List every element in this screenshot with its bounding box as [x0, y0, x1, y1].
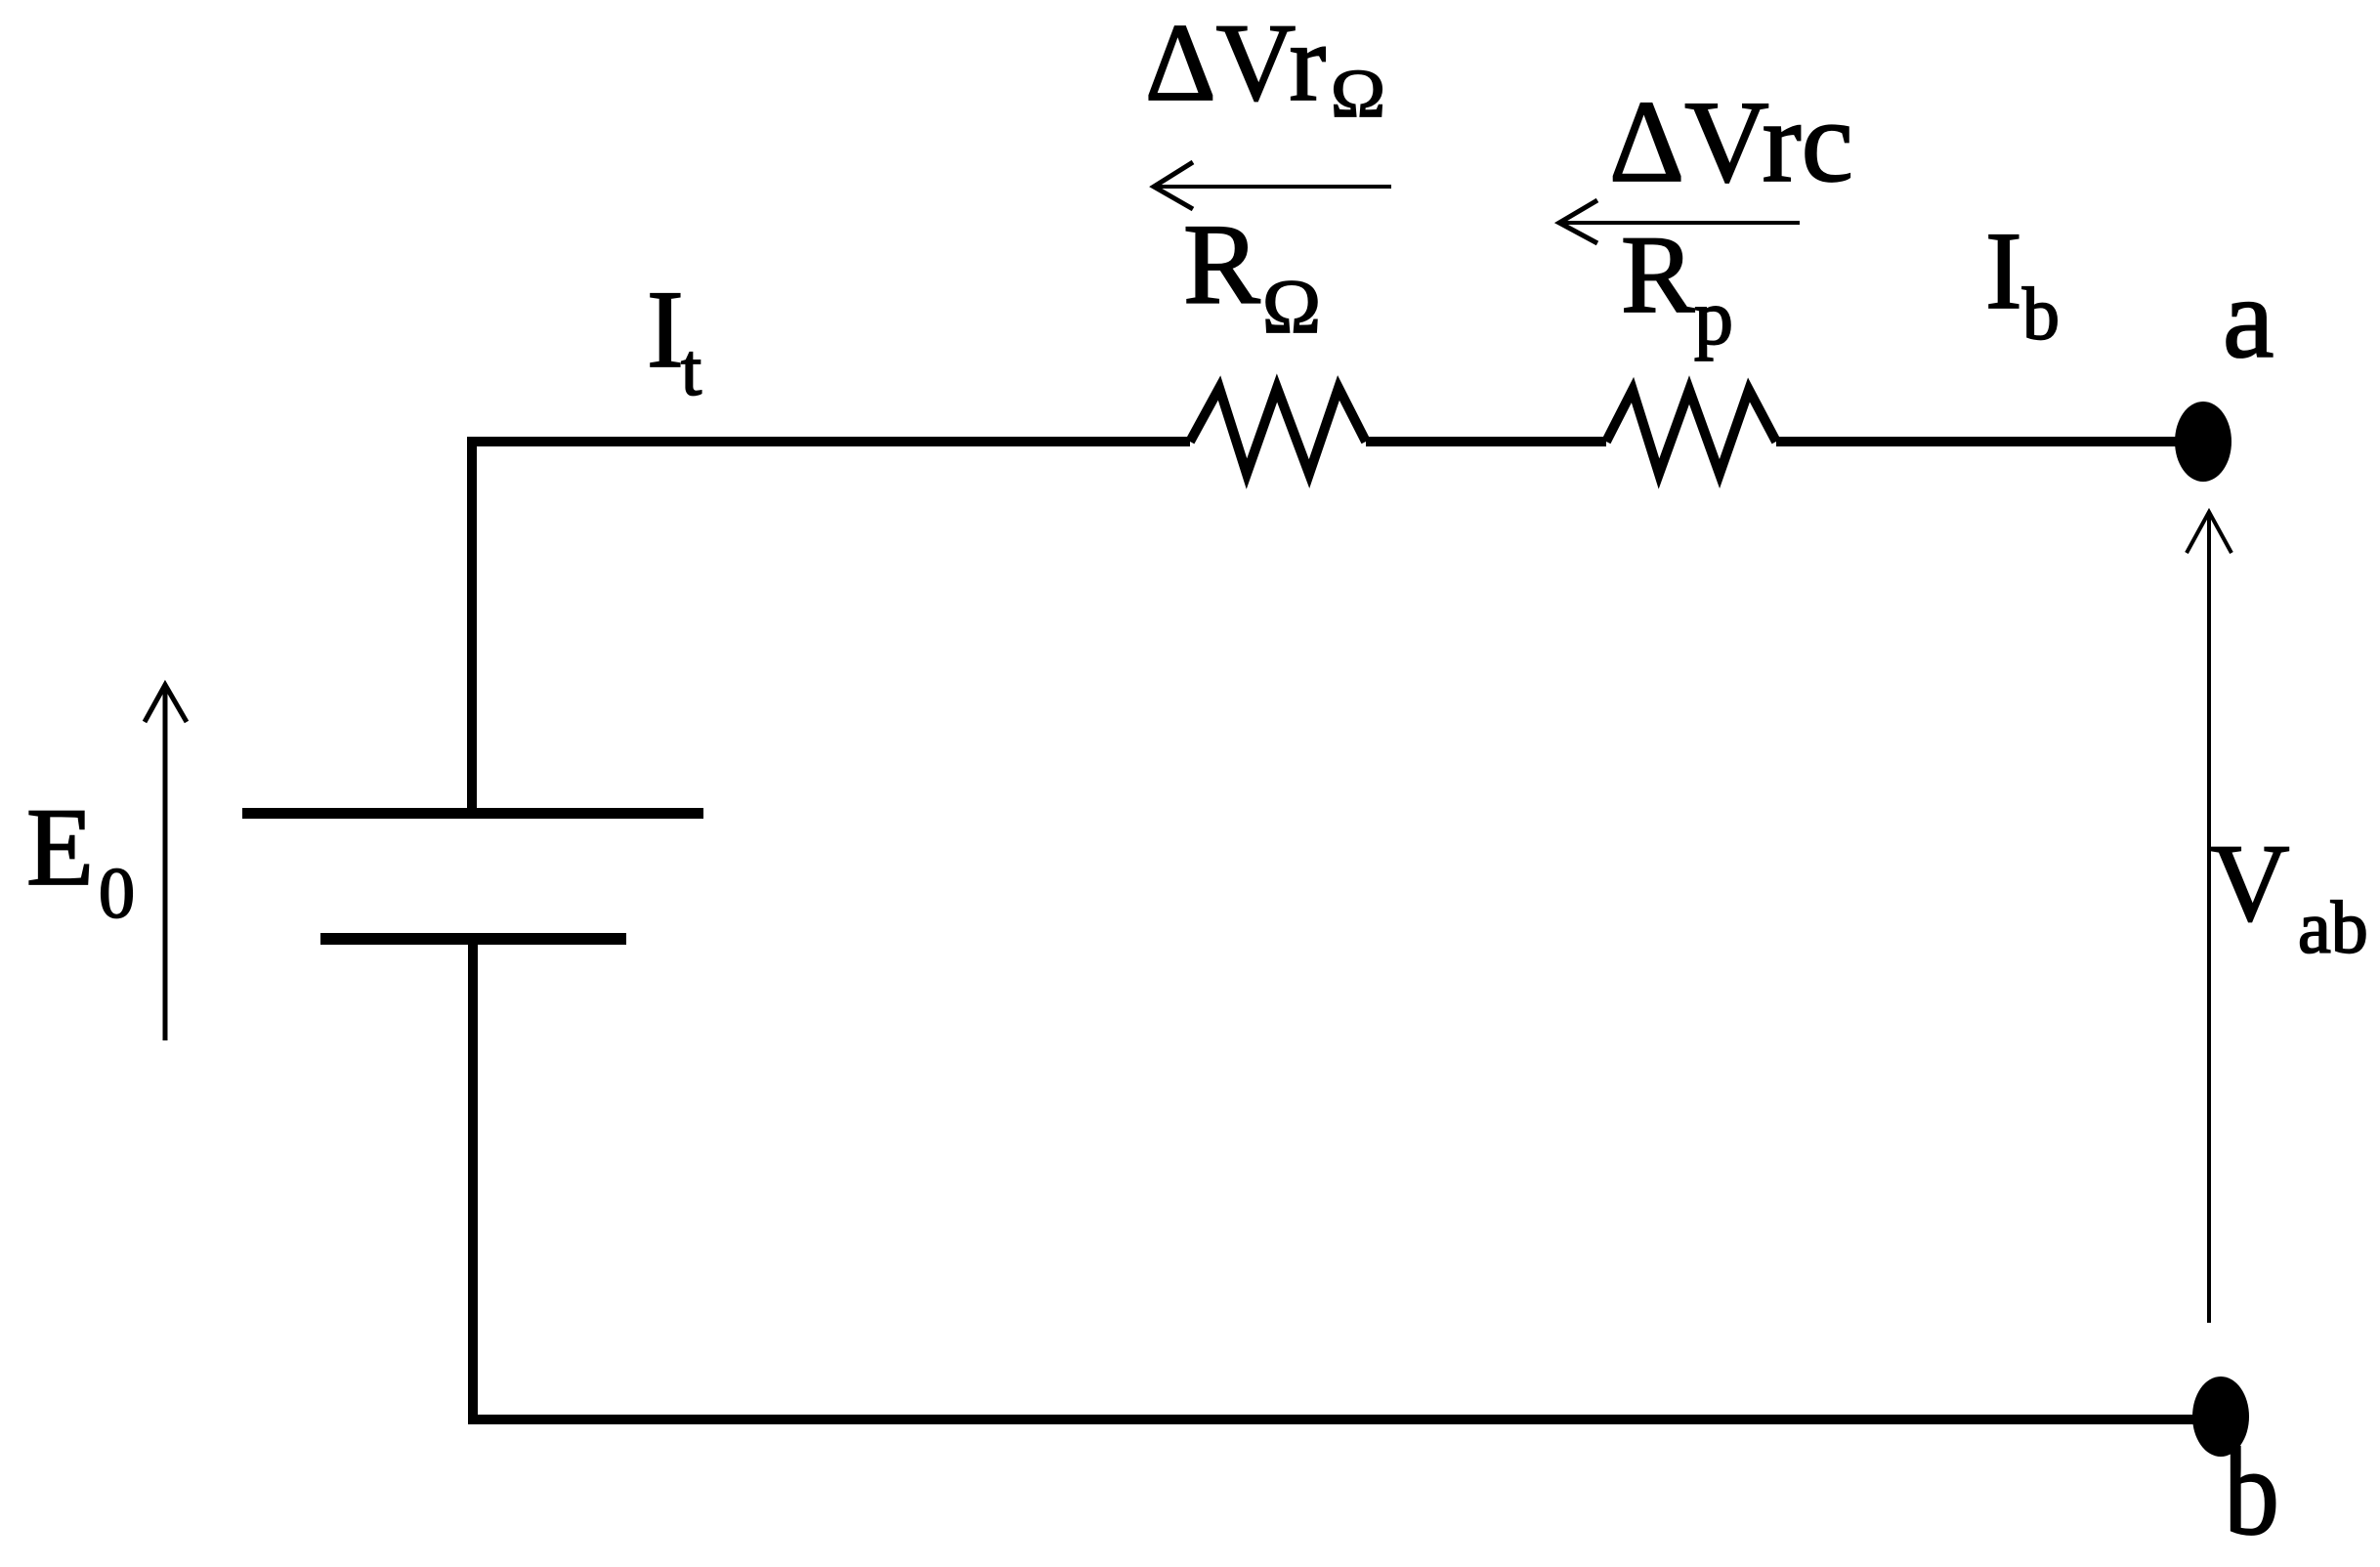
battery bottom plate (negative): [320, 933, 626, 945]
wire between resistors: [1366, 437, 1606, 446]
battery top plate (positive): [242, 808, 703, 819]
arrow delta-V r-Omega (voltage drop direction): [1154, 162, 1391, 209]
wire left vertical (battery + to top-left corner): [472, 442, 1190, 818]
svg-text:I: I: [1985, 210, 2022, 332]
svg-text:ΔVr: ΔVr: [1145, 2, 1326, 124]
svg-text:Ω: Ω: [1262, 264, 1321, 349]
svg-text:ab: ab: [2298, 887, 2368, 969]
svg-text:a: a: [2223, 254, 2274, 382]
label delta-V r-Omega: [1145, 2, 1385, 132]
svg-text:p: p: [1694, 275, 1733, 361]
svg-text:I: I: [647, 269, 684, 391]
label R_Omega: [1183, 200, 1321, 349]
svg-text:b: b: [2022, 274, 2060, 356]
node a dot: [2175, 402, 2231, 482]
svg-text:E: E: [26, 786, 94, 909]
node b dot: [2192, 1376, 2249, 1457]
label R_p: [1621, 214, 1733, 361]
label V_ab: [2210, 823, 2368, 969]
resistor R_Omega zigzag: [1190, 388, 1366, 474]
label delta-V rc: [1609, 76, 1853, 206]
svg-text:R: R: [1621, 214, 1695, 336]
arrow E0 (emf direction): [145, 685, 187, 1040]
svg-text:t: t: [681, 329, 701, 411]
svg-text:ΔVrc: ΔVrc: [1609, 76, 1853, 206]
svg-text:Ω: Ω: [1331, 57, 1385, 132]
svg-text:V: V: [2210, 823, 2290, 945]
svg-text:0: 0: [99, 854, 135, 934]
label E0: [26, 786, 135, 934]
label I_t: [647, 269, 701, 411]
label I_b: [1985, 210, 2060, 356]
arrow V_ab (terminal voltage, from b to a): [2187, 512, 2231, 1323]
label b: [2224, 1422, 2279, 1561]
label a: [2223, 254, 2274, 382]
arrow delta-V rc (voltage drop direction): [1559, 200, 1800, 243]
svg-text:b: b: [2224, 1422, 2279, 1561]
svg-text:R: R: [1183, 200, 1260, 328]
wire battery negative to bottom-left corner to node b: [473, 935, 2221, 1419]
resistor R_p zigzag: [1606, 390, 1776, 474]
wire resistor R_p to node a: [1776, 437, 2203, 446]
